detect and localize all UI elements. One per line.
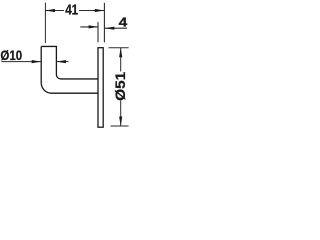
hook body: outer contour (post left face, R10 bend, lower arm line) xyxy=(41,46,98,93)
dimension "dia 51": vertical dimension line with text gap xyxy=(120,48,122,126)
dimension "41": dimension line with text gap xyxy=(45,10,104,12)
dimension "dia 10": arrowheads xyxy=(32,60,66,63)
dimension "dia 51": arrowheads xyxy=(119,48,122,126)
dimension "41"/"4": right extension line (wall face) xyxy=(103,3,105,42)
svg-text:Ø51: Ø51 xyxy=(113,71,128,101)
svg-text:4: 4 xyxy=(119,15,128,30)
dimension "4": arrowheads xyxy=(89,25,115,30)
dimension "4": dimension lines (arrows outside) xyxy=(80,27,127,28)
dimension "4": extension line at plate left face xyxy=(97,22,99,42)
dimension "dia 51": top extension line xyxy=(109,47,129,49)
dimension "41": left extension line xyxy=(44,3,46,43)
wall plate disc (edge view, thickness 4) xyxy=(98,48,103,128)
dimension "41": arrowheads xyxy=(45,9,104,12)
dimension "dia 51": bottom extension line xyxy=(111,125,129,127)
svg-text:41: 41 xyxy=(65,3,78,19)
hook body: inner contour (post right face, R4 bend, upper arm line) xyxy=(41,46,98,78)
svg-text:Ø10: Ø10 xyxy=(0,47,22,63)
dimension "dia 10": dimension lines (arrows outside post) xyxy=(1,61,68,63)
